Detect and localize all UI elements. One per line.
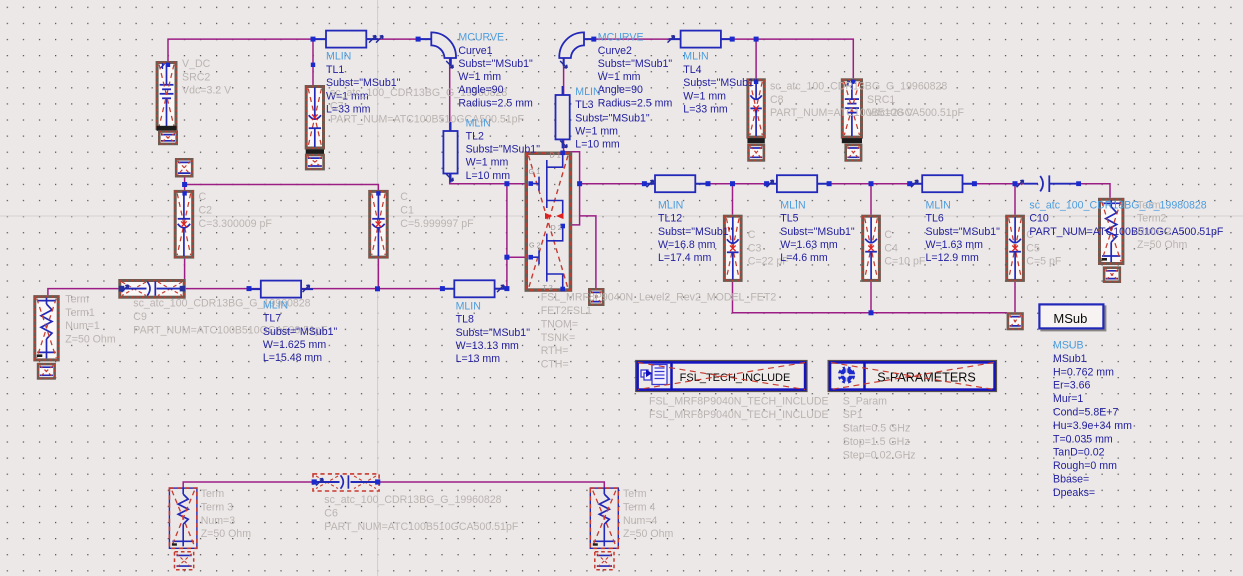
- wire V_DC SRC2 to TL1: [168, 39, 313, 61]
- svg-text:Angle=90: Angle=90: [458, 84, 503, 96]
- pin arrow C10 left: [1017, 180, 1024, 187]
- junction FET gate G1: [504, 181, 509, 186]
- capacitor C10 symbol: [1024, 183, 1079, 185]
- junction TL8 right: [504, 286, 509, 291]
- pad of Term3: [175, 552, 194, 570]
- wire C3 stub: [732, 184, 734, 215]
- svg-text:CTH=: CTH=: [541, 359, 569, 371]
- capacitor C6: [313, 474, 379, 491]
- svg-text:TL7: TL7: [263, 313, 281, 325]
- junction TL7 left: [247, 286, 252, 291]
- svg-text:Subst="MSub1": Subst="MSub1": [458, 58, 533, 70]
- wire TL1 to MCURVE Curve1: [366, 38, 431, 40]
- svg-text:Step=0.02 GHz: Step=0.02 GHz: [843, 449, 916, 461]
- svg-text:Term2: Term2: [1137, 213, 1167, 225]
- svg-text:W=13.13 mm: W=13.13 mm: [456, 340, 519, 352]
- svg-text:Subst="MSub1": Subst="MSub1": [926, 226, 1001, 238]
- via pad above C2: [175, 158, 194, 178]
- svg-text:G 1: G 1: [529, 167, 541, 176]
- page boundary vertical line: [377, 0, 379, 576]
- pin arrow TL5 left: [767, 180, 774, 187]
- simulation block S-PARAMETERS: [828, 360, 998, 392]
- wire TL4 to SRC1 with C8 drop: [720, 39, 853, 78]
- svg-text:Mur=1: Mur=1: [1053, 393, 1083, 405]
- wire C5 stub: [1014, 184, 1016, 215]
- substrate box MSub: [1041, 306, 1105, 330]
- bend Curve1: [431, 32, 456, 58]
- FET transistor FET2FSL1: [525, 152, 573, 292]
- wire C4 to ground bus: [870, 282, 872, 313]
- svg-text:Dpeaks=: Dpeaks=: [1053, 487, 1095, 499]
- svg-text:L=4.6 mm: L=4.6 mm: [780, 252, 828, 264]
- svg-text:MSUB: MSUB: [1053, 340, 1084, 352]
- svg-text:C=3.300009 pF: C=3.300009 pF: [199, 218, 273, 230]
- svg-text:Num=4: Num=4: [623, 515, 658, 527]
- svg-text:L=12.9 mm: L=12.9 mm: [926, 252, 979, 264]
- wire FET source to ground pad: [580, 216, 596, 289]
- svg-text:Term 3: Term 3: [201, 501, 233, 513]
- svg-text:FSL_MRF8P9040N_TECH_INCLUDE: FSL_MRF8P9040N_TECH_INCLUDE: [649, 409, 829, 421]
- svg-text:PART_NUM=ATC100B510GCA500.51pF: PART_NUM=ATC100B510GCA500.51pF: [324, 521, 519, 533]
- svg-text:C=5 pF: C=5 pF: [1026, 255, 1062, 267]
- junction C8 drop: [754, 37, 759, 42]
- simulation block FSL_TECH_INCLUDE: [635, 360, 808, 392]
- svg-text:Term1: Term1: [65, 307, 95, 319]
- svg-text:Term: Term: [1137, 199, 1161, 211]
- svg-text:TL4: TL4: [683, 64, 701, 76]
- svg-text:Hu=3.9e+34 mm: Hu=3.9e+34 mm: [1053, 420, 1132, 432]
- pad of SRC2: [158, 130, 178, 145]
- svg-text:S-PARAMETERS: S-PARAMETERS: [877, 370, 975, 384]
- wire Term3 to C6: [183, 482, 313, 488]
- junction FET output: [577, 181, 582, 186]
- capacitor C2: [174, 190, 195, 259]
- svg-text:TL6: TL6: [926, 213, 944, 225]
- svg-text:Subst="MSub1": Subst="MSub1": [658, 226, 733, 238]
- transmission line TL5: [765, 183, 829, 185]
- svg-text:TL2: TL2: [466, 130, 484, 142]
- svg-text:Subst="MSub1": Subst="MSub1": [575, 112, 650, 124]
- DC source SRC2: [156, 61, 178, 130]
- svg-text:MLIN: MLIN: [926, 199, 951, 211]
- termination Term2: [1098, 198, 1124, 265]
- svg-text:MLIN: MLIN: [658, 199, 683, 211]
- pin arrow Curve2 bottom: [560, 61, 567, 68]
- svg-text:Num=3: Num=3: [201, 515, 236, 527]
- pad of Term2: [1103, 266, 1121, 283]
- wire C7 drop: [312, 39, 314, 85]
- junction C3 top: [730, 181, 735, 186]
- svg-text:FSL_MRF8P9040N_Level2_Rev2_MOD: FSL_MRF8P9040N_Level2_Rev2_MODEL_FET2: [541, 292, 777, 304]
- junction TL6 left pin: [907, 181, 912, 186]
- svg-text:MCURVE: MCURVE: [598, 32, 644, 44]
- svg-text:Subst="MSub1": Subst="MSub1": [456, 327, 531, 339]
- ground pad of C5: [1007, 312, 1024, 330]
- svg-text:Vdc=3.2 V: Vdc=3.2 V: [182, 85, 232, 97]
- svg-text:Subst="MSub1": Subst="MSub1": [598, 58, 673, 70]
- svg-text:W=1 mm: W=1 mm: [575, 126, 618, 138]
- wire C6 to Term4: [379, 482, 604, 488]
- svg-text:TL1: TL1: [326, 64, 344, 76]
- transmission line TL8: [442, 288, 506, 290]
- termination Term3: [169, 488, 197, 548]
- bend Curve2: [559, 32, 584, 58]
- svg-text:W=1 mm: W=1 mm: [683, 90, 726, 102]
- svg-text:L=10 mm: L=10 mm: [466, 170, 511, 182]
- wire C1 to input line: [377, 259, 379, 289]
- junction Curve2 right: [591, 37, 596, 42]
- svg-text:C3: C3: [748, 242, 762, 254]
- svg-text:H=0.762 mm: H=0.762 mm: [1053, 366, 1114, 378]
- pin arrow TL3 bottom: [560, 141, 567, 148]
- wire C4 stub: [870, 184, 872, 215]
- svg-text:C: C: [884, 229, 892, 241]
- svg-text:Cond=5.8E+7: Cond=5.8E+7: [1053, 407, 1118, 419]
- svg-text:C4: C4: [884, 242, 898, 254]
- junction C4 top: [869, 181, 874, 186]
- capacitor C1: [368, 190, 389, 259]
- svg-text:S_Param: S_Param: [843, 395, 887, 407]
- wire C5 to ground pad: [1014, 282, 1016, 312]
- pad of C8: [747, 144, 765, 162]
- pin arrow TL12 left: [647, 180, 654, 187]
- wire Curve2 to TL4: [584, 38, 681, 40]
- svg-text:Z=50 Ohm: Z=50 Ohm: [201, 528, 252, 540]
- junction C5 top: [1013, 181, 1018, 186]
- pin arrow TL6 left: [911, 180, 918, 187]
- svg-text:MLIN: MLIN: [575, 86, 600, 98]
- svg-text:TanD=0.02: TanD=0.02: [1053, 447, 1105, 459]
- transmission line TL7: [249, 288, 313, 290]
- wire TL6 to C10: [962, 183, 1036, 185]
- wire Curve1 to TL2: [449, 58, 451, 131]
- svg-text:Start=0.5 GHz: Start=0.5 GHz: [843, 422, 910, 434]
- svg-text:Term: Term: [65, 294, 89, 306]
- svg-text:W=1.625 mm: W=1.625 mm: [263, 339, 326, 351]
- svg-text:FSL_MRF8P9040N_TECH_INCLUDE: FSL_MRF8P9040N_TECH_INCLUDE: [649, 396, 829, 408]
- svg-text:sc_atc_100_CDR13BG_G_19960828: sc_atc_100_CDR13BG_G_19960828: [324, 494, 501, 506]
- svg-text:D 2: D 2: [551, 223, 562, 232]
- junction TL6 right: [972, 181, 977, 186]
- svg-text:PART_NUM=ATC100B510GCA500.51pF: PART_NUM=ATC100B510GCA500.51pF: [1029, 226, 1224, 238]
- svg-text:Subst="MSub1": Subst="MSub1": [466, 144, 541, 156]
- svg-text:W=1 mm: W=1 mm: [458, 71, 501, 83]
- svg-text:MLIN: MLIN: [780, 199, 805, 211]
- wire C2 node to C1: [185, 185, 379, 192]
- svg-text:C9: C9: [133, 311, 147, 323]
- svg-text:C10: C10: [1029, 213, 1049, 225]
- svg-text:SRC1: SRC1: [867, 94, 895, 106]
- svg-text:TL5: TL5: [780, 213, 798, 225]
- svg-text:D 1: D 1: [550, 151, 561, 160]
- svg-text:MLIN: MLIN: [683, 51, 708, 63]
- svg-text:TSNK=: TSNK=: [541, 332, 575, 344]
- svg-text:TL3: TL3: [575, 99, 593, 111]
- pin arrow TL4 left: [668, 36, 675, 43]
- pin arrows TL1 right: [369, 36, 376, 43]
- svg-text:MCURVE: MCURVE: [458, 32, 504, 44]
- wire C3 to ground bus: [733, 282, 1008, 313]
- svg-text:T=0.035 mm: T=0.035 mm: [1053, 433, 1113, 445]
- junction pad-C2 node: [182, 182, 187, 187]
- svg-text:Term 4: Term 4: [623, 501, 655, 513]
- transmission line TL1: [314, 38, 378, 40]
- svg-text:L=17.4 mm: L=17.4 mm: [658, 252, 711, 264]
- svg-text:MSub: MSub: [1053, 311, 1087, 326]
- svg-text:Curve1: Curve1: [458, 45, 492, 57]
- junction TL12 right: [706, 181, 711, 186]
- capacitor C8: [746, 78, 765, 138]
- svg-text:sc_atc_100_CDR13BG_G_19960828: sc_atc_100_CDR13BG_G_19960828: [770, 80, 947, 92]
- svg-text:MLIN: MLIN: [466, 117, 491, 129]
- transmission line TL12: [643, 183, 707, 185]
- svg-text:C: C: [748, 229, 756, 241]
- svg-text:Curve2: Curve2: [598, 45, 632, 57]
- capacitor C5: [1005, 215, 1025, 282]
- svg-text:Radius=2.5 mm: Radius=2.5 mm: [598, 97, 673, 109]
- svg-text:C6: C6: [324, 507, 338, 519]
- svg-text:SP1: SP1: [843, 409, 863, 421]
- junction TL8 left: [440, 286, 445, 291]
- transmission line TL6: [910, 183, 974, 185]
- junction TL4 right: [730, 37, 735, 42]
- pad of Term4: [595, 552, 614, 570]
- svg-text:Subst="MSub1": Subst="MSub1": [780, 226, 855, 238]
- svg-text:L=13 mm: L=13 mm: [456, 353, 501, 365]
- pin arrow Curve1 bottom: [446, 61, 453, 68]
- wire pad to C2 node: [184, 178, 186, 192]
- transmission line TL3: [562, 86, 564, 148]
- wire FET output to TL12: [580, 183, 655, 185]
- pin arrow TL2 bottom: [446, 174, 453, 181]
- svg-text:MLIN: MLIN: [326, 51, 351, 63]
- svg-text:C5: C5: [1026, 242, 1040, 254]
- wire FET drain loop: [563, 152, 580, 225]
- wire Term1 to C9: [48, 289, 119, 296]
- svg-text:Angle=90: Angle=90: [598, 84, 643, 96]
- wire TL5 to TL6 with C4 drop: [817, 183, 923, 185]
- junction TL1 left: [311, 37, 316, 42]
- junction TL5 right: [827, 181, 832, 186]
- junction TL12 left: [642, 181, 647, 186]
- svg-text:TNOM=: TNOM=: [541, 318, 578, 330]
- wire TL3 to FET top pin D1: [563, 139, 565, 151]
- svg-text:V_DC: V_DC: [182, 58, 211, 70]
- svg-text:W=1.63 mm: W=1.63 mm: [780, 239, 838, 251]
- junction before Curve1: [416, 37, 421, 42]
- DC source SRC1: [841, 78, 863, 138]
- pad of SRC1: [844, 144, 862, 162]
- svg-text:Num=2: Num=2: [1137, 226, 1172, 238]
- svg-text:W=1 mm: W=1 mm: [598, 71, 641, 83]
- wire to FET gate G2: [507, 256, 525, 258]
- svg-text:W=1.63 mm: W=1.63 mm: [926, 239, 984, 251]
- svg-text:Subst="MSub1": Subst="MSub1": [263, 326, 338, 338]
- svg-text:C: C: [400, 191, 408, 203]
- svg-text:L=10 mm: L=10 mm: [575, 139, 620, 151]
- capacitor C4: [861, 215, 881, 282]
- capacitor C3: [723, 215, 743, 282]
- svg-text:Bbase=: Bbase=: [1053, 474, 1089, 486]
- svg-text:MLIN: MLIN: [456, 300, 481, 312]
- transmission line TL2: [450, 122, 452, 183]
- svg-text:C=5.999997 pF: C=5.999997 pF: [400, 218, 474, 230]
- svg-text:Z=50 Ohm: Z=50 Ohm: [1137, 239, 1188, 251]
- svg-text:RTH=: RTH=: [541, 345, 569, 357]
- svg-text:Radius=2.5 mm: Radius=2.5 mm: [458, 97, 533, 109]
- wire C10 to Term2: [1079, 184, 1110, 198]
- capacitor C9: [118, 279, 185, 299]
- svg-text:C=10 pF: C=10 pF: [884, 255, 925, 267]
- svg-text:TL8: TL8: [456, 314, 474, 326]
- svg-text:C1: C1: [400, 204, 414, 216]
- svg-text:Rough=0 mm: Rough=0 mm: [1053, 460, 1117, 472]
- capacitor C7: [305, 85, 325, 150]
- svg-text:TL12: TL12: [658, 213, 682, 225]
- junction ground bus C4: [869, 310, 874, 315]
- svg-text:MSub1: MSub1: [1053, 353, 1087, 365]
- svg-text:Stop=1.5 GHz: Stop=1.5 GHz: [843, 436, 910, 448]
- svg-text:Term: Term: [623, 488, 647, 500]
- svg-text:Num=1: Num=1: [65, 320, 100, 332]
- svg-text:FET2FSL1: FET2FSL1: [541, 305, 592, 317]
- wire C2 to C9 junction: [184, 259, 186, 289]
- wire TL2 to FET gate G1: [450, 173, 525, 184]
- svg-text:MLIN: MLIN: [263, 299, 288, 311]
- pin arrows TL7 right: [303, 285, 310, 292]
- wire TL8 to gate link: [495, 288, 507, 290]
- wire C8 drop vertical: [755, 39, 757, 78]
- svg-text:Er=3.66: Er=3.66: [1053, 380, 1091, 392]
- wire TL12 to TL5 with C3 drop: [696, 183, 777, 185]
- svg-text:C8: C8: [770, 94, 784, 106]
- pad of C7: [305, 154, 325, 171]
- svg-text:PART_NUM=ATC100B510GCA500.51pF: PART_NUM=ATC100B510GCA500.51pF: [330, 114, 525, 126]
- svg-text:Z=50 Ohm: Z=50 Ohm: [65, 333, 116, 345]
- svg-text:L=33 mm: L=33 mm: [683, 104, 728, 116]
- svg-text:L=15.48 mm: L=15.48 mm: [263, 352, 322, 364]
- svg-text:G 2: G 2: [529, 241, 541, 250]
- wire Curve2 to TL3: [563, 58, 565, 95]
- wire C9 to TL7: [186, 288, 261, 290]
- svg-text:W=1 mm: W=1 mm: [466, 157, 509, 169]
- junction TL5 left pin: [764, 181, 769, 186]
- ground pad of FET: [588, 288, 605, 306]
- page boundary horizontal line: [0, 215, 1243, 217]
- junction C1 bottom: [375, 286, 380, 291]
- wire gate link G1-G2: [506, 184, 508, 289]
- transmission line TL4: [669, 38, 733, 40]
- svg-text:SRC2: SRC2: [182, 71, 210, 83]
- pin arrow TL8 right: [497, 285, 504, 292]
- svg-text:Vdc=28 V: Vdc=28 V: [867, 107, 914, 119]
- svg-text:Term: Term: [201, 488, 225, 500]
- svg-text:sc_atc_100_CDR13BG_G_19980828: sc_atc_100_CDR13BG_G_19980828: [1029, 199, 1206, 211]
- svg-text:C: C: [199, 191, 207, 203]
- termination Term1: [33, 295, 59, 361]
- svg-text:Z=50 Ohm: Z=50 Ohm: [623, 528, 674, 540]
- pad of Term1: [37, 363, 56, 380]
- svg-text:C2: C2: [199, 204, 213, 216]
- svg-text:C7: C7: [330, 100, 344, 112]
- termination Term4: [590, 488, 618, 548]
- wire TL7 to TL8: [301, 288, 442, 290]
- svg-text:Subst="MSub1": Subst="MSub1": [683, 77, 758, 89]
- junction FET gate G2: [504, 255, 509, 260]
- svg-text:W=16.8 mm: W=16.8 mm: [658, 239, 716, 251]
- pin arrow C9 left: [122, 285, 129, 292]
